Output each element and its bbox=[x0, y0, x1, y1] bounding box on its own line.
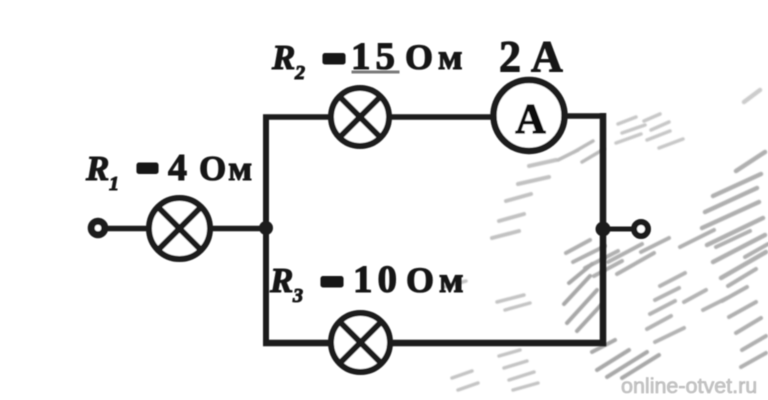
svg-text:Ом: Ом bbox=[199, 149, 254, 188]
svg-text:A: A bbox=[531, 32, 563, 81]
svg-text:online-otvet.ru: online-otvet.ru bbox=[621, 374, 757, 398]
svg-text:Ом: Ом bbox=[406, 260, 469, 300]
svg-text:1: 1 bbox=[109, 173, 119, 195]
svg-text:2: 2 bbox=[499, 32, 521, 81]
svg-text:3: 3 bbox=[292, 285, 303, 307]
svg-text:R: R bbox=[85, 149, 109, 188]
svg-text:R: R bbox=[271, 38, 295, 77]
svg-text:10: 10 bbox=[353, 258, 402, 301]
svg-text:Ом: Ом bbox=[405, 37, 468, 77]
svg-text:R: R bbox=[269, 261, 293, 300]
svg-text:2: 2 bbox=[294, 62, 305, 84]
svg-text:A: A bbox=[515, 97, 546, 143]
svg-text:4: 4 bbox=[168, 147, 187, 189]
